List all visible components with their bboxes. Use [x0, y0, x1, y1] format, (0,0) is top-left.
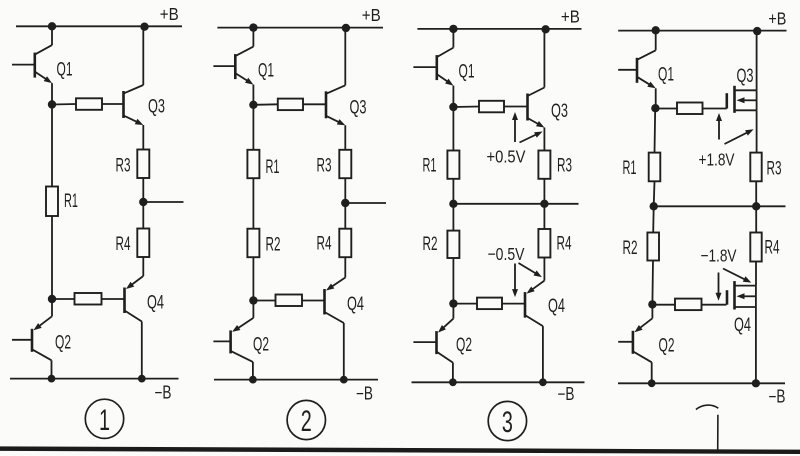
- wire output stub (circuit 2): [345, 202, 386, 204]
- node Q4 collector / -B (circuit 1): [138, 375, 146, 383]
- node Q2 emitter / bias (circuit 4): [648, 300, 656, 308]
- circled number 2: [287, 400, 325, 439]
- transistor Q4 (circuit 1): [125, 257, 144, 379]
- wire +B rail (circuit 4): [618, 30, 786, 32]
- svg-text:R3: R3: [116, 156, 131, 177]
- wire -B rail (circuit 2): [214, 379, 378, 381]
- circled number 1: [85, 399, 123, 438]
- wire between R1 and R2 (circuit 2): [252, 178, 254, 229]
- resistor R4 (circuit 4): [750, 233, 761, 262]
- wire between R1 and R2 (circuit 3): [452, 179, 454, 231]
- arrow +1.8V to Q3 gate (circuit 4): [718, 118, 720, 140]
- wire Q4 drain to -B (circuit 4): [755, 307, 757, 383]
- wire R3 to output node (circuit 2): [344, 178, 346, 203]
- node at Q3 drain / +B (circuit 4): [753, 27, 761, 35]
- wire R3 to output node (circuit 3): [543, 179, 545, 204]
- svg-text:R1: R1: [266, 157, 280, 178]
- node Q4 drain / -B (circuit 4): [752, 379, 760, 387]
- wire Q2 base lead (circuit 4): [618, 341, 633, 343]
- wire R1 to mid node (circuit 4): [653, 181, 656, 206]
- resistor R1 (circuit 1): [46, 187, 58, 217]
- arrow +1.8V to Q3 source (circuit 4): [725, 132, 750, 144]
- svg-text:R1: R1: [423, 156, 437, 177]
- svg-text:Q1: Q1: [258, 61, 274, 82]
- MOSFET Q4 (circuit 4): [727, 281, 756, 309]
- wire output node to R4 (circuit 4): [755, 206, 757, 232]
- wire output node to R4 (circuit 1): [142, 202, 144, 229]
- transistor Q1 (circuit 3): [437, 29, 454, 107]
- output node (circuit 1): [139, 198, 147, 206]
- wire +B rail (circuit 3): [417, 28, 581, 30]
- node Q2 collector / -B (circuit 3): [449, 378, 457, 386]
- resistor R3 (circuit 3): [538, 151, 550, 179]
- node mid left branch (circuit 3): [449, 200, 457, 208]
- svg-text:Q2: Q2: [456, 335, 472, 356]
- scan artifact: black band at bottom: [0, 446, 800, 454]
- wire Q3 source to R3 (circuit 4): [756, 110, 758, 152]
- node at Q1 collector / +B (circuit 1): [48, 22, 56, 30]
- resistor R3 (circuit 1): [137, 150, 149, 179]
- node Q2 emitter / bias (circuit 3): [449, 299, 457, 307]
- wire left branch upper (circuit 4): [654, 108, 657, 152]
- node at Q1 collector / +B (circuit 4): [652, 26, 660, 34]
- resistor R1 (circuit 2): [247, 150, 259, 178]
- wire Q1 base lead (circuit 4): [618, 69, 637, 71]
- svg-text:1: 1: [99, 404, 110, 437]
- wire -B rail (circuit 4): [618, 382, 785, 384]
- resistor R1 (circuit 4): [649, 153, 661, 182]
- node Q1 emitter / bias (circuit 1): [48, 100, 56, 108]
- svg-text:R3: R3: [557, 156, 572, 177]
- svg-text:Q2: Q2: [659, 336, 675, 357]
- node Q2 emitter / bias (circuit 2): [249, 296, 257, 304]
- svg-text:R1: R1: [64, 191, 78, 212]
- wire R3 to output node (circuit 4): [755, 181, 757, 206]
- node Q2 collector / -B (circuit 1): [48, 375, 56, 383]
- svg-text:R4: R4: [765, 238, 780, 259]
- svg-text:Q4: Q4: [548, 296, 565, 317]
- svg-text:Q1: Q1: [57, 60, 73, 81]
- output node (circuit 2): [341, 199, 349, 207]
- node Q4 collector / -B (circuit 3): [539, 378, 547, 386]
- wire -B rail (circuit 1): [10, 378, 179, 380]
- transistor Q4 (circuit 3): [525, 258, 544, 383]
- transistor Q2 (circuit 4): [633, 304, 653, 383]
- arrow +0.5V to Q3 emitter (circuit 3): [520, 134, 539, 143]
- svg-text:R3: R3: [767, 159, 782, 180]
- svg-text:Q2: Q2: [253, 335, 269, 356]
- resistor R2 (circuit 3): [447, 231, 459, 258]
- svg-text:Q3: Q3: [551, 101, 568, 122]
- transistor Q3 (circuit 3): [528, 29, 545, 151]
- svg-text:R3: R3: [317, 156, 332, 177]
- resistor R3 (circuit 2): [339, 150, 351, 178]
- wire left branch upper (circuit 1): [51, 105, 53, 187]
- svg-text:+0.5V: +0.5V: [487, 147, 526, 167]
- wire mid node to R2 (circuit 4): [652, 206, 655, 232]
- svg-text:+B: +B: [768, 9, 786, 29]
- svg-text:2: 2: [301, 405, 312, 438]
- transistor Q4 (circuit 2): [325, 257, 346, 379]
- resistor R3 (circuit 4): [750, 153, 761, 182]
- node Q1 emitter / bias (circuit 4): [651, 104, 659, 112]
- svg-text:−0.5V: −0.5V: [488, 244, 525, 264]
- resistor R2 (circuit 4): [647, 233, 659, 261]
- transistor Q2 (circuit 1): [32, 299, 52, 379]
- svg-text:+B: +B: [561, 6, 580, 26]
- node at Q3 collector / +B (circuit 1): [140, 23, 148, 31]
- svg-text:R1: R1: [623, 158, 637, 179]
- transistor Q1 (circuit 4): [637, 31, 656, 109]
- arrow -0.5V to Q4 base (circuit 3): [514, 264, 516, 293]
- svg-text:3: 3: [502, 406, 513, 439]
- svg-text:R2: R2: [423, 234, 438, 255]
- node Q2 collector / -B (circuit 4): [648, 379, 656, 387]
- wire Q1 base lead (circuit 3): [413, 66, 436, 68]
- svg-text:−B: −B: [769, 387, 786, 407]
- wire mid rail to output (circuit 4): [654, 205, 786, 207]
- arrow -0.5V to Q4 emitter (circuit 3): [519, 263, 538, 275]
- output node (circuit 4): [752, 202, 760, 210]
- svg-text:−1.8V: −1.8V: [701, 246, 737, 266]
- svg-text:Q4: Q4: [147, 293, 164, 314]
- resistor bias bottom (circuit 1): [52, 293, 125, 305]
- wire Q2 base lead (circuit 1): [12, 339, 32, 341]
- resistor bias top (circuit 1): [52, 98, 124, 110]
- MOSFET Q3 (circuit 4): [727, 86, 757, 113]
- resistor bias bottom (circuit 2): [253, 295, 324, 307]
- node Q2 collector / -B (circuit 2): [249, 376, 257, 384]
- resistor bias bottom (circuit 4): [652, 299, 726, 311]
- wire R3 to output node (circuit 1): [142, 178, 144, 202]
- wire R2 to Q2 node (circuit 3): [452, 258, 454, 304]
- resistor bias top (circuit 4): [655, 103, 726, 115]
- node Q1 emitter / bias (circuit 2): [249, 101, 257, 109]
- node Q1 emitter / bias (circuit 3): [449, 103, 457, 111]
- node at Q3 collector / +B (circuit 3): [541, 25, 549, 33]
- resistor R2 (circuit 2): [247, 229, 259, 258]
- wire output node to R4 (circuit 2): [344, 203, 346, 229]
- wire Q2 base lead (circuit 3): [413, 341, 436, 343]
- wire output stub (circuit 1): [143, 201, 183, 203]
- arrow -1.8V to Q4 gate (circuit 4): [718, 273, 720, 296]
- svg-text:Q1: Q1: [658, 65, 674, 86]
- resistor R4 (circuit 2): [339, 229, 351, 258]
- node at Q1 collector / +B (circuit 2): [249, 23, 257, 31]
- stray vertical stroke below circle 4: [717, 415, 719, 453]
- resistor R4 (circuit 3): [538, 229, 550, 258]
- svg-text:−B: −B: [356, 384, 373, 404]
- resistor bias top (circuit 3): [453, 101, 527, 113]
- wire -B rail (circuit 3): [412, 381, 585, 383]
- node mid left branch (circuit 4): [650, 202, 658, 210]
- wire Q3 drain to +B (circuit 4): [756, 31, 758, 91]
- wire output node to R4 (circuit 3): [543, 204, 545, 229]
- wire left branch upper (circuit 2): [252, 105, 254, 150]
- svg-text:+B: +B: [362, 5, 381, 25]
- resistor R4 (circuit 1): [137, 229, 149, 258]
- wire Q1 base lead (circuit 1): [12, 64, 35, 66]
- svg-text:R4: R4: [116, 234, 131, 255]
- resistor R1 (circuit 3): [447, 151, 459, 179]
- wire R4 to Q4 source (circuit 4): [755, 262, 757, 286]
- node Q2 emitter / bias (circuit 1): [48, 295, 56, 303]
- resistor bias top (circuit 2): [253, 99, 326, 111]
- arrow -1.8V to Q4 source (circuit 4): [723, 269, 747, 281]
- transistor Q2 (circuit 2): [231, 301, 254, 380]
- svg-text:−B: −B: [155, 383, 172, 403]
- svg-text:Q3: Q3: [350, 98, 367, 119]
- partial circled number 4 arc: [696, 405, 718, 409]
- wire Q1 base lead (circuit 2): [213, 65, 235, 67]
- transistor Q3 (circuit 1): [124, 26, 144, 149]
- wire mid rail to output (circuit 3): [453, 203, 578, 205]
- svg-text:Q1: Q1: [459, 62, 475, 83]
- svg-text:+1.8V: +1.8V: [699, 150, 735, 170]
- svg-text:Q2: Q2: [55, 333, 71, 354]
- svg-text:Q3: Q3: [148, 97, 165, 118]
- wire +B rail (circuit 2): [217, 27, 383, 29]
- svg-text:Q4: Q4: [347, 294, 364, 315]
- arrow +0.5V to Q3 base (circuit 3): [514, 117, 516, 142]
- transistor Q3 (circuit 2): [326, 28, 345, 150]
- svg-text:+B: +B: [160, 4, 179, 24]
- resistor bias bottom (circuit 3): [453, 298, 525, 310]
- svg-text:R4: R4: [317, 234, 332, 255]
- wire left branch upper (circuit 3): [452, 107, 454, 151]
- output node (circuit 3): [540, 200, 548, 208]
- svg-text:R2: R2: [623, 238, 638, 259]
- svg-text:R4: R4: [557, 234, 572, 255]
- svg-text:R2: R2: [266, 235, 281, 256]
- wire left branch lower (circuit 1): [51, 216, 53, 299]
- wire R2 to Q2 node (circuit 4): [651, 261, 654, 305]
- node at Q3 collector / +B (circuit 2): [342, 24, 350, 32]
- transistor Q2 (circuit 3): [437, 304, 454, 383]
- node Q4 collector / -B (circuit 2): [340, 376, 348, 384]
- svg-text:Q3: Q3: [737, 66, 754, 87]
- wire Q2 base lead (circuit 2): [213, 340, 230, 342]
- svg-text:Q4: Q4: [734, 315, 751, 336]
- circled number 3: [488, 401, 526, 440]
- transistor Q1 (circuit 2): [235, 28, 253, 105]
- wire +B rail (circuit 1): [16, 25, 182, 27]
- wire R2 to Q2 node (circuit 2): [252, 257, 254, 300]
- node at Q1 collector / +B (circuit 3): [449, 25, 457, 33]
- transistor Q1 (circuit 1): [35, 26, 52, 104]
- svg-text:−B: −B: [558, 384, 575, 404]
